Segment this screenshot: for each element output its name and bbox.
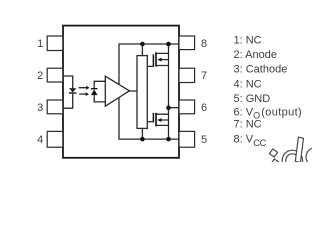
svg-text:3: 3 (37, 102, 43, 114)
svg-text:5: GND: 5: GND (234, 93, 271, 105)
svg-text:8: VCC: 8: VCC (234, 134, 267, 149)
svg-text:5: 5 (201, 134, 207, 146)
svg-text:2: 2 (37, 70, 43, 82)
svg-text:3: Cathode: 3: Cathode (234, 64, 288, 76)
svg-text:7: 7 (201, 70, 207, 82)
svg-text:2: Anode: 2: Anode (234, 49, 277, 61)
svg-text:6: 6 (201, 102, 207, 114)
svg-text:7: NC: 7: NC (234, 119, 262, 131)
svg-text:4: NC: 4: NC (234, 78, 262, 90)
svg-text:1: 1 (37, 38, 43, 50)
svg-text:4: 4 (37, 134, 43, 146)
svg-text:1: NC: 1: NC (234, 34, 262, 46)
svg-text:8: 8 (201, 38, 207, 50)
